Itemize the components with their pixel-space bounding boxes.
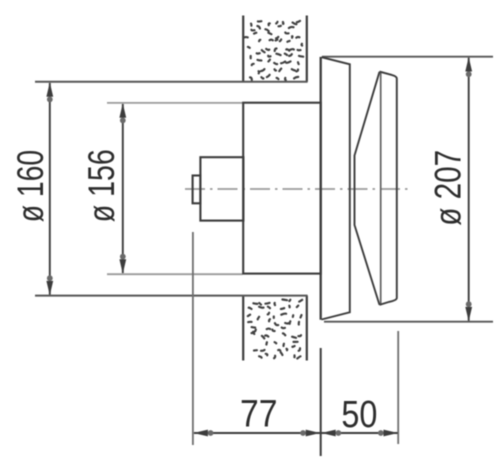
svg-text:77: 77 xyxy=(240,394,278,436)
svg-text:50: 50 xyxy=(341,394,377,436)
svg-text:ø 156: ø 156 xyxy=(81,149,122,222)
svg-text:ø 207: ø 207 xyxy=(428,150,469,226)
svg-text:ø 160: ø 160 xyxy=(10,150,51,223)
